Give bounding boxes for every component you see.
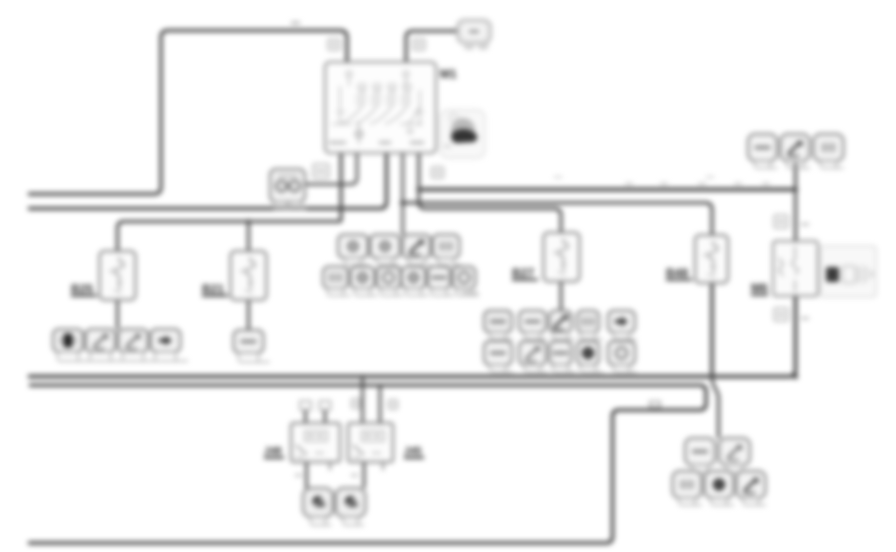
svg-text:M1: M1 <box>440 67 457 81</box>
svg-text:J48: J48 <box>264 445 282 457</box>
svg-text:J45: J45 <box>404 445 422 457</box>
svg-text:M6: M6 <box>751 281 768 295</box>
svg-text:B21: B21 <box>202 282 224 296</box>
svg-text:B48: B48 <box>666 266 688 280</box>
svg-text:B27: B27 <box>512 266 534 280</box>
svg-text:B25: B25 <box>71 282 93 296</box>
